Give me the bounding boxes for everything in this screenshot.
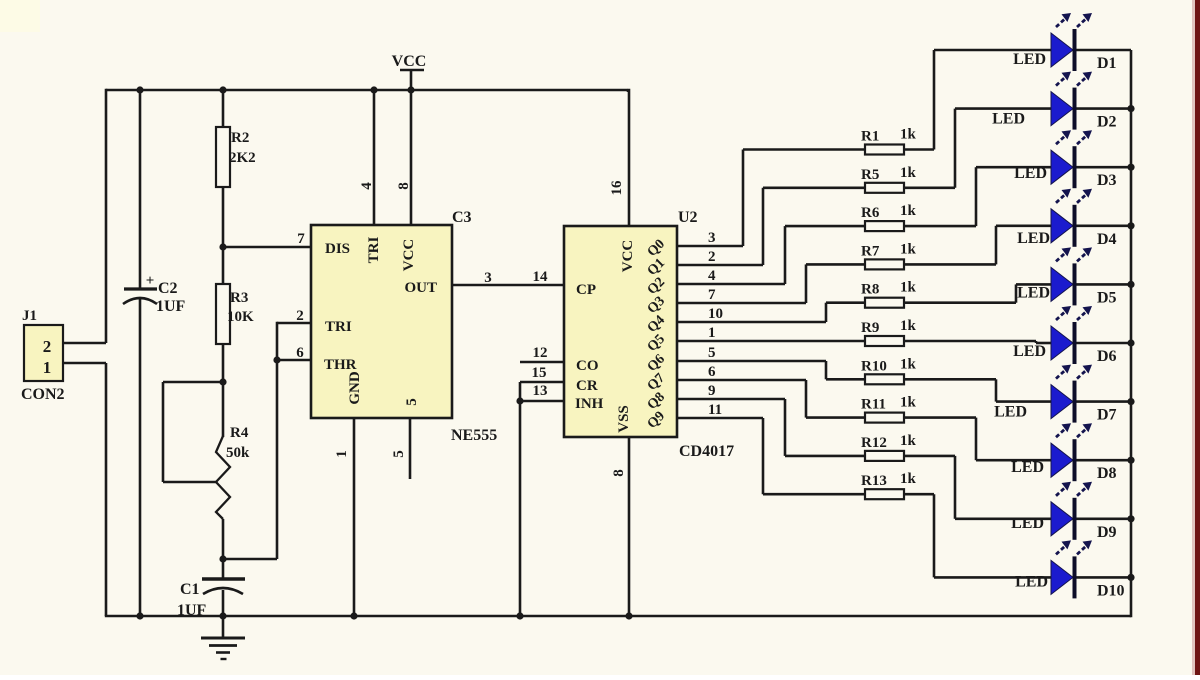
svg-text:LED: LED [1011,515,1044,532]
svg-text:D8: D8 [1097,465,1117,482]
svg-text:15: 15 [532,365,547,381]
svg-text:1k: 1k [900,471,917,487]
svg-text:OUT: OUT [404,280,437,296]
svg-text:2: 2 [296,308,304,324]
svg-text:D10: D10 [1097,582,1125,599]
svg-text:U2: U2 [678,209,698,226]
svg-text:R6: R6 [861,205,880,221]
svg-text:LED: LED [1017,230,1050,247]
svg-text:TRI: TRI [366,237,382,264]
svg-text:50k: 50k [226,445,250,461]
svg-text:THR: THR [324,357,357,373]
svg-text:DIS: DIS [325,241,350,257]
svg-text:9: 9 [708,383,716,399]
svg-text:D6: D6 [1097,348,1117,365]
svg-text:LED: LED [1011,459,1044,476]
svg-text:VCC: VCC [620,240,636,273]
svg-text:R10: R10 [861,358,887,374]
svg-text:8: 8 [396,182,412,190]
svg-text:8: 8 [611,469,627,477]
svg-text:C1: C1 [180,581,200,598]
svg-text:CD4017: CD4017 [679,443,734,460]
svg-text:7: 7 [297,231,305,247]
svg-text:2: 2 [708,249,716,265]
svg-text:R11: R11 [861,397,886,413]
svg-text:R5: R5 [861,167,879,183]
svg-text:C2: C2 [158,280,178,297]
svg-text:3: 3 [708,230,716,246]
svg-text:CON2: CON2 [21,386,65,403]
svg-text:1k: 1k [900,318,917,334]
svg-text:3: 3 [484,270,492,286]
svg-text:R13: R13 [861,473,887,489]
svg-text:4: 4 [359,182,375,190]
svg-text:D5: D5 [1097,289,1117,306]
svg-text:1k: 1k [900,127,917,143]
svg-text:D9: D9 [1097,524,1117,541]
svg-text:R4: R4 [230,425,249,441]
svg-text:1k: 1k [900,280,917,296]
svg-text:5: 5 [391,450,407,458]
svg-text:13: 13 [533,383,548,399]
svg-text:LED: LED [994,404,1027,421]
svg-text:11: 11 [708,402,722,418]
svg-text:1UF: 1UF [156,298,186,315]
svg-text:LED: LED [1013,343,1046,360]
svg-text:6: 6 [708,364,716,380]
svg-text:VCC: VCC [401,239,417,272]
svg-text:10K: 10K [227,309,254,325]
svg-text:10: 10 [708,306,723,322]
svg-text:R2: R2 [231,130,249,146]
svg-text:D7: D7 [1097,407,1117,424]
svg-text:1: 1 [334,450,350,458]
svg-text:C3: C3 [452,209,472,226]
svg-text:VSS: VSS [616,405,632,433]
svg-text:+: + [146,273,155,289]
svg-text:D1: D1 [1097,55,1117,72]
svg-text:1k: 1k [900,356,917,372]
svg-text:J1: J1 [22,308,37,324]
svg-text:R12: R12 [861,435,887,451]
svg-text:CR: CR [576,378,598,394]
svg-text:R7: R7 [861,243,880,259]
svg-text:VCC: VCC [392,53,427,70]
svg-text:R8: R8 [861,282,879,298]
svg-text:14: 14 [533,269,549,285]
svg-text:GND: GND [347,371,363,405]
svg-text:LED: LED [1015,573,1048,590]
svg-text:INH: INH [575,396,604,412]
svg-text:1UF: 1UF [177,602,207,619]
svg-text:CO: CO [576,358,599,374]
svg-text:16: 16 [609,180,625,196]
svg-text:D3: D3 [1097,172,1117,189]
svg-text:LED: LED [1013,51,1046,68]
svg-text:2: 2 [43,337,52,356]
svg-text:6: 6 [296,345,304,361]
svg-text:CP: CP [576,282,596,298]
svg-text:LED: LED [1014,165,1047,182]
svg-text:R9: R9 [861,320,879,336]
svg-text:7: 7 [708,287,716,303]
svg-text:R3: R3 [230,290,248,306]
svg-text:D2: D2 [1097,114,1117,131]
svg-text:1k: 1k [900,165,917,181]
svg-text:R1: R1 [861,129,879,145]
svg-text:4: 4 [708,268,716,284]
svg-text:12: 12 [533,345,548,361]
svg-text:1k: 1k [900,433,917,449]
svg-text:5: 5 [404,398,420,406]
svg-text:LED: LED [992,111,1025,128]
svg-text:1: 1 [43,358,52,377]
svg-text:2K2: 2K2 [229,150,256,166]
svg-text:5: 5 [708,345,716,361]
svg-text:1k: 1k [900,203,917,219]
svg-text:TRI: TRI [325,319,352,335]
svg-text:NE555: NE555 [451,427,497,444]
svg-text:1k: 1k [900,241,917,257]
svg-text:D4: D4 [1097,231,1117,248]
svg-text:1: 1 [708,325,716,341]
svg-text:LED: LED [1017,284,1050,301]
svg-text:1k: 1k [900,395,917,411]
